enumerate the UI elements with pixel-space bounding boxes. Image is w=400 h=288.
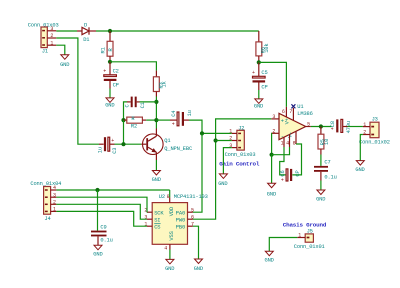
wire J1 pin1 to ground xyxy=(56,45,65,55)
node R2/C1 left junction xyxy=(121,118,125,122)
wire J4 pin4 to U2 VDD xyxy=(56,189,169,191)
diode D1 xyxy=(77,22,96,43)
svg-text:PB0: PB0 xyxy=(176,224,185,230)
svg-text:J4: J4 xyxy=(44,216,50,222)
svg-text:GND: GND xyxy=(265,258,274,264)
svg-text:VDD: VDD xyxy=(169,207,175,216)
ground (Q1 emitter) xyxy=(152,171,161,184)
svg-text:5: 5 xyxy=(307,122,310,128)
wire ground node down xyxy=(271,155,273,184)
capacitor C2 xyxy=(103,62,119,98)
svg-text:GND: GND xyxy=(165,266,174,272)
svg-text:C5: C5 xyxy=(261,70,267,76)
svg-text:GND: GND xyxy=(194,266,203,272)
svg-text:GND: GND xyxy=(105,102,114,108)
svg-text:1: 1 xyxy=(50,40,53,46)
wire J3 pin2 to ground xyxy=(360,135,363,161)
svg-text:1k: 1k xyxy=(162,81,168,87)
svg-text:CS: CS xyxy=(154,224,160,230)
node output junction xyxy=(319,124,323,128)
svg-text:V+: V+ xyxy=(285,118,291,124)
node R6/C5 junction xyxy=(257,60,261,64)
svg-text:2: 2 xyxy=(363,130,366,136)
capacitor C1 xyxy=(124,97,157,121)
wire R2 to collector node xyxy=(146,119,156,121)
svg-text:GND: GND xyxy=(93,252,102,258)
svg-text:2: 2 xyxy=(272,128,275,134)
svg-text:2: 2 xyxy=(53,200,56,206)
svg-text:Chasis Ground: Chasis Ground xyxy=(283,221,327,228)
svg-text:C7: C7 xyxy=(324,160,330,166)
node R3/C1 junction xyxy=(154,100,158,104)
wire output rail xyxy=(311,126,332,128)
capacitor C8 xyxy=(330,119,352,133)
svg-text:1: 1 xyxy=(298,233,301,239)
svg-text:4: 4 xyxy=(164,245,167,251)
svg-text:V-: V- xyxy=(288,132,294,138)
svg-text:GND: GND xyxy=(355,167,364,173)
svg-text:GND: GND xyxy=(254,104,263,110)
svg-text:LM386: LM386 xyxy=(297,111,312,117)
svg-text:U1: U1 xyxy=(297,104,303,110)
connector J3 Conn_01x02 xyxy=(359,117,390,146)
ground (U2 VSS) xyxy=(165,259,174,271)
svg-text:VSS: VSS xyxy=(169,231,175,240)
node base junction xyxy=(121,142,125,146)
wire J5 pin1 to ground xyxy=(269,238,297,252)
wire op-amp + input rail xyxy=(193,119,271,219)
wire pin4 to ground node xyxy=(272,147,290,155)
capacitor C9 xyxy=(91,190,113,245)
resistor R3 xyxy=(153,71,167,97)
svg-text:PA0: PA0 xyxy=(176,210,185,216)
wire J1 pin2 to C3 xyxy=(56,38,99,144)
svg-text:10: 10 xyxy=(324,139,330,145)
wire top rail xyxy=(96,30,259,32)
svg-text:C9: C9 xyxy=(100,224,106,230)
ground (C2) xyxy=(105,98,114,108)
svg-text:3: 3 xyxy=(50,26,53,32)
wire C5 node to op-amp V+ xyxy=(259,62,287,107)
wire J4 pin3 to SCK xyxy=(56,197,147,212)
wire C4 node down to U2 PA0 xyxy=(193,133,202,212)
ground (J3) xyxy=(355,161,364,173)
ground (J2) xyxy=(218,174,227,187)
wire R3 to collector node xyxy=(155,97,157,129)
wire J2 pin3 to ground xyxy=(223,148,231,174)
svg-text:GND: GND xyxy=(267,191,276,197)
wire U2 PB0 to ground xyxy=(193,226,199,259)
svg-text:Conn_01x03: Conn_01x03 xyxy=(225,152,256,158)
svg-text:5: 5 xyxy=(191,207,194,213)
connector J5 Conn_01x01 xyxy=(294,229,325,251)
wire pin1 to C6 left xyxy=(280,147,286,175)
svg-text:GND: GND xyxy=(60,62,69,68)
transistor Q1 Q_NPN_EBC xyxy=(141,129,192,161)
resistor R5 xyxy=(318,127,330,155)
svg-text:SI: SI xyxy=(154,217,160,223)
svg-text:GND: GND xyxy=(316,196,325,202)
digital pot U2 MCP4131-103 xyxy=(144,194,207,251)
svg-text:PW0: PW0 xyxy=(176,217,185,223)
svg-text:Q_NPN_EBC: Q_NPN_EBC xyxy=(164,146,192,152)
svg-text:6: 6 xyxy=(282,109,285,115)
svg-text:CP: CP xyxy=(261,84,267,90)
connector J2 Conn_01x03 xyxy=(225,125,256,158)
wire collector node to C4 xyxy=(156,119,170,121)
wire emitter to ground xyxy=(155,160,157,171)
svg-text:GND: GND xyxy=(152,177,161,183)
svg-text:C6: C6 xyxy=(280,170,286,176)
svg-text:Q1: Q1 xyxy=(164,138,170,144)
node J2 pin2 junction xyxy=(214,138,218,142)
svg-text:Gain Control: Gain Control xyxy=(219,160,260,167)
svg-text:10k: 10k xyxy=(264,44,270,53)
svg-text:2: 2 xyxy=(229,136,232,142)
svg-text:Conn_01x02: Conn_01x02 xyxy=(359,140,390,146)
svg-text:1: 1 xyxy=(281,141,284,147)
wire C3 to Q1 base xyxy=(115,143,142,145)
wire J2 pin1 node xyxy=(202,132,232,134)
svg-text:0.1u: 0.1u xyxy=(324,175,336,181)
no-connect X on pin 7 xyxy=(291,104,295,108)
wire pin8 to C6 right xyxy=(292,144,301,175)
wire C8 to J3 xyxy=(348,126,363,128)
svg-text:C1: C1 xyxy=(140,102,146,108)
svg-text:D1: D1 xyxy=(83,37,89,43)
svg-text:+: + xyxy=(281,177,284,183)
resistor R1 xyxy=(101,31,114,62)
capacitor C5 xyxy=(252,62,268,99)
ground (C9) xyxy=(93,245,102,257)
svg-text:1: 1 xyxy=(363,122,366,128)
svg-text:1u: 1u xyxy=(97,147,103,153)
ground (chassis) xyxy=(265,251,274,263)
node C9 junction xyxy=(95,188,99,192)
wire J4 pin1 to CS xyxy=(56,211,146,226)
svg-text:3: 3 xyxy=(272,114,275,120)
svg-text:3: 3 xyxy=(53,192,56,198)
capacitor C7 xyxy=(314,155,337,191)
ground (C5) xyxy=(254,99,263,110)
ground (U2 PB0) xyxy=(194,259,203,272)
svg-text:+: + xyxy=(172,121,175,127)
svg-text:MCP4131-103: MCP4131-103 xyxy=(174,194,208,200)
svg-text:+: + xyxy=(103,69,106,75)
svg-text:+: + xyxy=(111,138,114,144)
node R1/C2 junction xyxy=(108,60,112,64)
ground (C7) xyxy=(316,190,325,202)
svg-text:Conn_01x01: Conn_01x01 xyxy=(294,244,325,250)
svg-text:4: 4 xyxy=(53,185,56,191)
wire op-amp pin2 to ground node xyxy=(270,133,272,154)
wire C4 to J2 node xyxy=(189,120,202,133)
svg-text:1u: 1u xyxy=(187,110,193,116)
svg-text:CP: CP xyxy=(295,170,301,176)
capacitor C3 xyxy=(97,137,118,154)
svg-text:7: 7 xyxy=(289,109,292,115)
wire J1 pin3 to D1 xyxy=(56,30,77,32)
svg-text:+: + xyxy=(281,118,284,124)
node collector junction xyxy=(154,118,158,122)
svg-text:C2: C2 xyxy=(113,68,119,74)
capacitor C4 xyxy=(170,110,193,127)
svg-text:R2: R2 xyxy=(131,124,137,130)
svg-text:U2: U2 xyxy=(159,194,165,200)
svg-text:C4: C4 xyxy=(171,111,177,117)
op-amp U1 LM386 xyxy=(271,104,312,147)
ground (op-amp) xyxy=(267,183,276,197)
svg-text:+: + xyxy=(331,127,334,133)
svg-text:J1: J1 xyxy=(42,48,48,54)
svg-text:8: 8 xyxy=(293,141,296,147)
capacitor C6 xyxy=(280,169,301,183)
svg-text:0.1u: 0.1u xyxy=(100,238,112,244)
node op-amp ground junction xyxy=(270,153,274,157)
svg-text:1: 1 xyxy=(53,207,56,213)
svg-text:D: D xyxy=(84,22,87,28)
svg-text:CP: CP xyxy=(113,82,119,88)
resistor R6 xyxy=(256,31,270,62)
wire J2 pin2 xyxy=(216,140,232,142)
svg-text:4: 4 xyxy=(286,141,289,147)
resistor R2 xyxy=(124,116,147,130)
svg-text:GND: GND xyxy=(218,181,227,187)
svg-text:R1: R1 xyxy=(101,47,107,53)
wire R2 node down to base xyxy=(123,120,125,144)
svg-text:SCK: SCK xyxy=(154,210,164,216)
svg-text:2: 2 xyxy=(50,33,53,39)
svg-text:6: 6 xyxy=(191,214,194,220)
node diode/R1 junction xyxy=(108,29,112,33)
wire C2 node to R3 xyxy=(110,62,156,71)
wire U2 VSS to ground xyxy=(169,250,171,260)
ground (J1) xyxy=(60,55,69,68)
connector J1 Conn_01x03 xyxy=(28,22,59,54)
svg-text:470u: 470u xyxy=(346,121,352,133)
svg-text:C3: C3 xyxy=(112,148,118,154)
wire J4 pin2 to SI xyxy=(56,204,146,219)
svg-text:1: 1 xyxy=(229,129,232,135)
svg-text:+: + xyxy=(252,70,255,76)
node J2 pin1 junction xyxy=(200,131,204,135)
connector J4 Conn_01x04 xyxy=(30,181,61,222)
svg-text:C: C xyxy=(125,104,131,107)
